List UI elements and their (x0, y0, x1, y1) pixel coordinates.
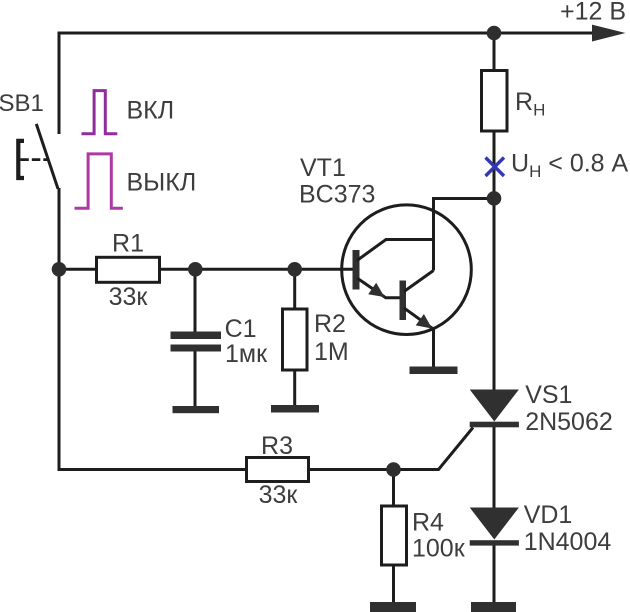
svg-text:R4: R4 (412, 509, 444, 537)
transistor VT1 Q1 emitter arrow (368, 283, 384, 297)
node junction left rail (52, 262, 67, 277)
wire VT1 collector to node (434, 199, 495, 271)
wire RH top (493, 33, 496, 71)
wire R2 branch top (293, 269, 296, 309)
supply arrow +12V (592, 25, 626, 42)
wire R4 bottom to ground (392, 565, 395, 603)
transistor VT1 Q2 collector (404, 271, 434, 292)
resistor R3 (247, 458, 309, 482)
svg-text:33к: 33к (259, 481, 299, 509)
transistor VT1 Q2 emitter (404, 308, 433, 329)
wire R4 top (392, 470, 395, 507)
wire R3 right to VS1 gate (309, 428, 474, 470)
svg-text:1N4004: 1N4004 (524, 528, 612, 556)
wire VS1 cathode to VD1 anode (493, 427, 496, 508)
svg-text:1M: 1M (314, 338, 349, 366)
wire R1 row right segment to VT1 base (160, 268, 354, 271)
diode VD1 (470, 508, 519, 546)
svg-text:VT1: VT1 (300, 154, 346, 182)
svg-text:+12 В: +12 В (560, 0, 626, 26)
node junction at top rail (487, 26, 502, 41)
svg-text:UН < 0.8 A: UН < 0.8 A (511, 150, 629, 182)
wire top rail (59, 33, 596, 134)
node junction collector/VS1 (487, 191, 502, 206)
ground under C1 (173, 406, 220, 413)
svg-text:R1: R1 (112, 229, 144, 257)
transistor VT1 Q1 collector (357, 240, 434, 261)
transistor VT1 circle (342, 205, 472, 335)
pulse ВКЛ (82, 91, 118, 134)
wire node down to VS1 anode (493, 199, 496, 390)
svg-text:VS1: VS1 (525, 381, 572, 409)
transistor VT1 Q1 base bar (353, 250, 360, 290)
wire VD1 cathode to ground (493, 546, 496, 603)
switch SB1 actuator dashed link (20, 158, 48, 161)
switch SB1 pushbutton bracket (18, 141, 24, 178)
svg-text:ВЫКЛ: ВЫКЛ (127, 169, 197, 197)
svg-text:VD1: VD1 (524, 501, 573, 529)
wire R2 branch bottom (293, 370, 296, 406)
node junction R3/R4/gate (386, 462, 401, 477)
svg-text:33к: 33к (109, 283, 149, 311)
svg-text:ВКЛ: ВКЛ (127, 97, 175, 125)
wire C1 branch top (194, 269, 197, 331)
ground under VT1 emitter (410, 367, 458, 375)
ground under VD1 (471, 602, 516, 612)
resistor R2 (283, 309, 308, 370)
wire C1 branch bottom (194, 351, 197, 406)
svg-text:C1: C1 (225, 315, 257, 343)
ground under R2 (271, 405, 319, 413)
transistor VT1 Q2 emitter arrow (416, 314, 432, 329)
svg-text:1мк: 1мк (225, 340, 268, 368)
wire RH bottom to thyristor node (493, 131, 496, 199)
svg-text:2N5062: 2N5062 (525, 408, 613, 436)
node junction C1 tap (188, 262, 203, 277)
resistor R1 (97, 257, 160, 282)
thyristor VS1 (470, 390, 519, 428)
svg-text:R3: R3 (261, 432, 293, 460)
resistor R4 (382, 506, 407, 565)
transistor VT1 Q1 emitter (357, 278, 400, 298)
svg-text:100к: 100к (412, 534, 466, 562)
transistor VT1 Q2 base bar (400, 281, 407, 321)
capacitor C1 (171, 332, 222, 352)
svg-text:R2: R2 (314, 310, 346, 338)
ground under R4 (370, 602, 416, 612)
measurement mark X blue (486, 158, 505, 177)
switch SB1 arm (36, 124, 58, 189)
pulse ВЫКЛ (75, 154, 123, 208)
svg-text:SB1: SB1 (0, 90, 44, 117)
node junction R2 tap (287, 262, 302, 277)
svg-text:RН: RН (515, 88, 545, 120)
svg-text:BC373: BC373 (299, 181, 375, 209)
wire R1 row left segment (59, 268, 97, 271)
wire VT1 emitter to ground (432, 329, 435, 367)
resistor RH (482, 71, 508, 132)
wire left vertical below switch down to R3 row (59, 188, 247, 470)
